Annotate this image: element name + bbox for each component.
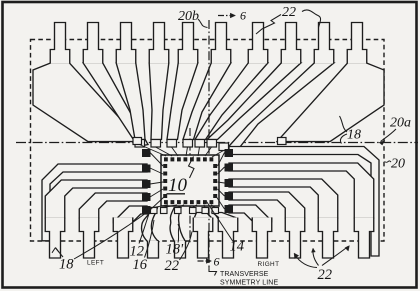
svg-text:TRANSVERSE: TRANSVERSE xyxy=(220,271,269,278)
svg-text:22: 22 xyxy=(282,5,296,20)
svg-text:22: 22 xyxy=(318,267,333,283)
svg-text:6: 6 xyxy=(240,9,246,23)
svg-text:20b: 20b xyxy=(178,9,199,24)
svg-text:SYMMETRY LINE: SYMMETRY LINE xyxy=(220,280,278,287)
svg-text:16: 16 xyxy=(133,257,148,273)
svg-text:18: 18 xyxy=(347,128,361,143)
svg-text:LEFT: LEFT xyxy=(87,260,104,267)
svg-text:10: 10 xyxy=(168,175,188,196)
svg-text:14: 14 xyxy=(230,239,245,255)
svg-text:20: 20 xyxy=(391,157,405,172)
svg-text:22: 22 xyxy=(165,258,180,274)
svg-text:18': 18' xyxy=(166,242,185,258)
svg-text:RIGHT: RIGHT xyxy=(258,261,280,268)
svg-text:20a: 20a xyxy=(390,116,411,131)
svg-text:6: 6 xyxy=(214,255,220,269)
svg-text:18: 18 xyxy=(59,257,74,273)
